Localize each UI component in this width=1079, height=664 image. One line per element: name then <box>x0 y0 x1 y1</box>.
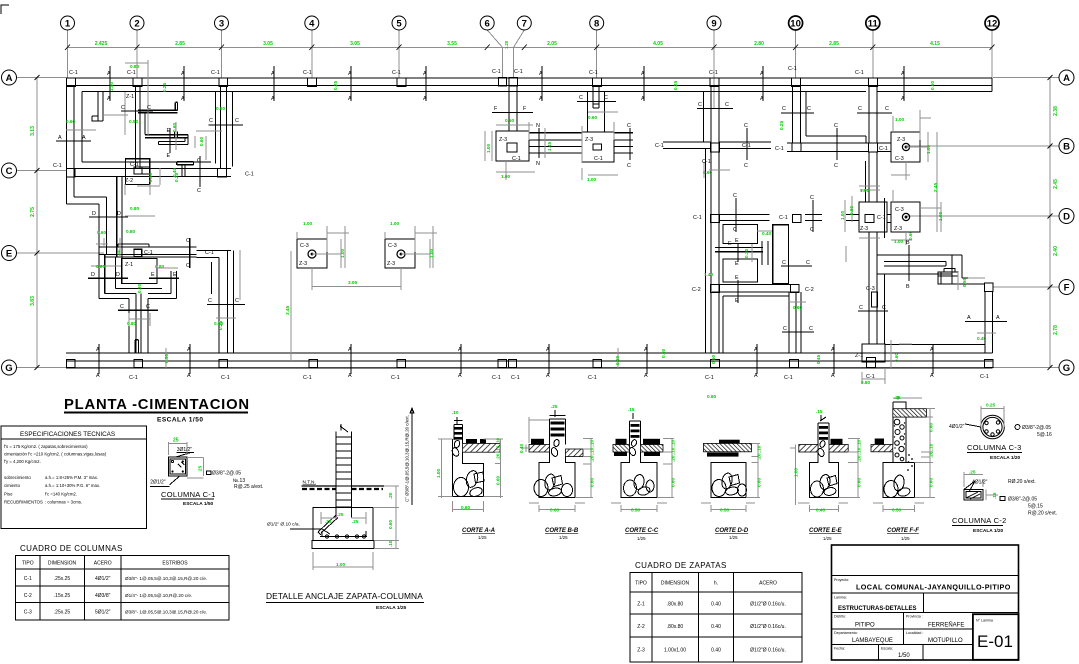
svg-text:3Ø1/2": 3Ø1/2" <box>177 447 193 453</box>
svg-text:C: C <box>147 105 151 111</box>
svg-text:0.40: 0.40 <box>977 336 987 341</box>
svg-text:.15: .15 <box>816 409 823 414</box>
svg-text:0.50: 0.50 <box>631 508 641 513</box>
svg-text:1.00: 1.00 <box>894 239 904 244</box>
C-C neck <box>118 309 158 311</box>
svg-text:Z-3: Z-3 <box>499 137 507 143</box>
grid11 wall below Z-3 <box>869 232 877 272</box>
svg-text:A: A <box>996 315 1000 321</box>
svg-text:A: A <box>187 347 191 353</box>
svg-text:.25x.25: .25x.25 <box>54 610 71 616</box>
svg-text:C-3: C-3 <box>866 286 875 292</box>
svg-text:ESTRUCTURAS-DETALLES: ESTRUCTURAS-DETALLES <box>838 606 917 612</box>
svg-text:R@.20 s/ext.: R@.20 s/ext. <box>1028 511 1057 517</box>
svg-text:TIPO: TIPO <box>635 581 647 587</box>
svg-text:C-1: C-1 <box>705 375 714 381</box>
svg-text:C-1: C-1 <box>742 143 751 149</box>
tick between footings <box>538 128 540 158</box>
svg-text:A: A <box>181 71 185 77</box>
svg-text:0.25: 0.25 <box>333 80 338 90</box>
svg-text:C-1: C-1 <box>303 375 312 381</box>
svg-text:2.425: 2.425 <box>95 41 108 47</box>
svg-text:C-1: C-1 <box>514 69 523 75</box>
svg-text:E: E <box>735 275 739 281</box>
CORTE F-F <box>871 395 935 541</box>
svg-text:RØ.20 s/ext.: RØ.20 s/ext. <box>1008 479 1036 485</box>
grid3 wall A-C <box>221 86 227 169</box>
Z-3/C-3 footing right upper <box>891 132 920 162</box>
svg-text:1/25: 1/25 <box>478 535 487 540</box>
svg-text:0.60: 0.60 <box>172 122 177 132</box>
svg-text:0.45: 0.45 <box>816 354 821 364</box>
corridor walls down to E room <box>99 177 122 259</box>
svg-text:A: A <box>187 373 191 379</box>
svg-text:A: A <box>539 71 543 77</box>
svg-text:A: A <box>644 373 648 379</box>
Z-2 footing <box>126 159 150 185</box>
svg-text:E: E <box>167 128 171 134</box>
E-room east wall <box>171 271 177 299</box>
E-room left: top band <box>99 244 197 257</box>
svg-text:5: 5 <box>396 19 402 30</box>
svg-text:A: A <box>831 373 835 379</box>
svg-text:A: A <box>348 96 352 102</box>
svg-text:3.05: 3.05 <box>348 280 358 285</box>
svg-text:LAMBAYEQUE: LAMBAYEQUE <box>852 638 893 644</box>
anchor bars <box>318 515 338 535</box>
svg-text:3.83: 3.83 <box>30 296 36 306</box>
svg-text:1.00: 1.00 <box>860 188 870 193</box>
svg-text:Ø1/2"Ø 0.16c/u.: Ø1/2"Ø 0.16c/u. <box>750 602 786 608</box>
svg-text:Z-1: Z-1 <box>125 262 133 268</box>
svg-text:B: B <box>1063 142 1070 153</box>
svg-text:2.85: 2.85 <box>175 41 185 47</box>
svg-text:A: A <box>644 347 648 353</box>
Z-3/C-3 footing right lower <box>891 202 920 232</box>
svg-text:Ø3/8"-2@.05: Ø3/8"-2@.05 <box>1008 497 1037 503</box>
svg-text:0.80: 0.80 <box>861 380 871 385</box>
svg-text:C-3: C-3 <box>300 243 309 249</box>
svg-text:C-1: C-1 <box>709 70 718 76</box>
svg-text:C-1: C-1 <box>492 375 501 381</box>
svg-text:Z-3: Z-3 <box>894 226 902 232</box>
svg-text:D: D <box>91 272 95 278</box>
svg-text:C: C <box>806 260 810 266</box>
svg-text:1/25: 1/25 <box>559 535 568 540</box>
svg-text:0.80: 0.80 <box>96 264 106 269</box>
svg-text:1.00: 1.00 <box>926 144 931 154</box>
column squares row G <box>67 360 994 368</box>
svg-text:5@.15: 5@.15 <box>1028 504 1043 510</box>
svg-text:0.60: 0.60 <box>461 505 471 510</box>
svg-text:0.60: 0.60 <box>590 477 595 487</box>
svg-text:COLUMNA C-2: COLUMNA C-2 <box>952 516 1007 525</box>
svg-text:ACERO: ACERO <box>94 561 112 567</box>
svg-text:A: A <box>423 71 427 77</box>
svg-text:0.50: 0.50 <box>148 172 153 182</box>
C-1 labels row G <box>129 374 989 381</box>
svg-text:C-1: C-1 <box>144 250 153 256</box>
C ticks mid band <box>630 128 837 160</box>
svg-text:2.80: 2.80 <box>754 41 764 47</box>
svg-text:A: A <box>901 71 905 77</box>
svg-text:DIMENSION: DIMENSION <box>661 581 690 587</box>
svg-text:.20,.10: .20,.10 <box>757 445 762 460</box>
svg-text:0.60: 0.60 <box>550 508 560 513</box>
grid2 interior wall (Z-1 wall) <box>135 86 140 169</box>
svg-text:Lamina:: Lamina: <box>834 596 847 600</box>
svg-text:C-1: C-1 <box>589 70 598 76</box>
svg-text:0.80: 0.80 <box>126 229 136 234</box>
svg-text:C: C <box>810 227 814 233</box>
svg-text:Z-3: Z-3 <box>637 648 645 654</box>
svg-text:A: A <box>760 96 764 102</box>
svg-text:C-1: C-1 <box>69 70 78 76</box>
svg-text:C: C <box>733 193 737 199</box>
C ticks lower band near grid10/11 <box>813 198 885 238</box>
svg-text:: columnas = 3cms.: : columnas = 3cms. <box>45 500 82 505</box>
svg-text:A: A <box>271 71 275 77</box>
C-C grid11 low <box>858 310 888 312</box>
grid8 wall down <box>588 86 605 132</box>
svg-text:4Ø1/2": 4Ø1/2" <box>949 424 965 430</box>
svg-text:C: C <box>807 106 811 112</box>
svg-text:0.60: 0.60 <box>857 477 862 487</box>
svg-text:DETALLE ANCLAJE ZAPATA-COLUMNA: DETALLE ANCLAJE ZAPATA-COLUMNA <box>266 591 423 601</box>
svg-text:D: D <box>92 211 96 217</box>
svg-text:7: 7 <box>522 19 527 30</box>
svg-text:C: C <box>186 263 190 269</box>
svg-text:cimentación f'c =210 Kg/cm2.: cimentación f'c =210 Kg/cm2. ( columnas,… <box>4 452 107 457</box>
CORTE C-C <box>611 407 676 541</box>
grid10 wall lower <box>789 292 801 353</box>
CORTE A-A <box>436 410 503 540</box>
svg-text:C-3: C-3 <box>895 156 904 162</box>
svg-text:C: C <box>120 304 124 310</box>
svg-text:12: 12 <box>987 19 998 30</box>
svg-text:CORTE C-C: CORTE C-C <box>625 528 659 534</box>
svg-text:25: 25 <box>173 438 179 444</box>
grid 6/7 wall down to Z-3 <box>509 86 517 131</box>
row bubbles left A C E G <box>2 70 17 375</box>
svg-text:C: C <box>783 326 787 332</box>
svg-text:Z-1: Z-1 <box>855 353 863 359</box>
svg-text:.15: .15 <box>628 407 635 412</box>
svg-text:2.40: 2.40 <box>1053 246 1059 256</box>
svg-text:C-1: C-1 <box>511 375 520 381</box>
svg-text:0.60: 0.60 <box>908 230 913 240</box>
inner face verticals mid rooms <box>703 92 705 143</box>
svg-text:C-1: C-1 <box>24 576 32 582</box>
svg-text:C-1: C-1 <box>655 143 664 149</box>
fogon detail rect <box>938 269 958 285</box>
svg-text:E: E <box>167 153 171 159</box>
svg-text:1/25: 1/25 <box>637 536 646 541</box>
svg-text:0.80: 0.80 <box>130 206 140 211</box>
svg-text:1.00: 1.00 <box>340 248 345 258</box>
svg-text:RECUBRIMIENTOS: RECUBRIMIENTOS <box>4 500 43 505</box>
svg-text:2.78: 2.78 <box>1053 325 1059 335</box>
svg-text:10: 10 <box>790 19 801 30</box>
svg-text:C: C <box>859 305 863 311</box>
svg-text:0.25: 0.25 <box>174 172 179 182</box>
svg-text:A: A <box>760 71 764 77</box>
svg-text:C: C <box>810 195 814 201</box>
svg-text:E: E <box>735 261 739 267</box>
svg-text:0.60: 0.60 <box>929 422 934 432</box>
svg-text:F: F <box>1064 283 1070 294</box>
Z-3 footing grid8 <box>582 132 614 162</box>
svg-text:0.50: 0.50 <box>164 353 169 363</box>
svg-text:0.60: 0.60 <box>588 115 598 120</box>
svg-text:Provincia :: Provincia : <box>906 615 923 619</box>
room inner faces grid10-11 <box>806 92 866 144</box>
svg-text:4Ø1/2": 4Ø1/2" <box>972 480 988 486</box>
svg-text:0.55: 0.55 <box>962 277 967 287</box>
svg-text:C-1: C-1 <box>779 215 788 221</box>
svg-text:C: C <box>121 105 125 111</box>
svg-text:C-1: C-1 <box>53 163 62 169</box>
svg-text:C-1: C-1 <box>245 172 254 178</box>
svg-text:A: A <box>58 135 62 141</box>
svg-text:E: E <box>173 272 177 278</box>
svg-text:Z-2: Z-2 <box>637 624 645 630</box>
wall below band at grid10 area <box>773 225 789 284</box>
svg-text:0.80: 0.80 <box>127 321 137 326</box>
svg-text:ESCALA 1/20: ESCALA 1/20 <box>990 455 1021 461</box>
svg-text:1.00: 1.00 <box>390 221 400 226</box>
svg-text:D: D <box>1063 212 1070 223</box>
svg-text:.10: .10 <box>452 410 459 415</box>
misc black labels in plan <box>53 94 905 359</box>
svg-text:0.60: 0.60 <box>199 136 204 146</box>
svg-text:C: C <box>882 305 886 311</box>
svg-text:.20,.10,.10: .20,.10,.10 <box>671 439 676 462</box>
left margin dims <box>30 126 36 306</box>
svg-text:.20,.10,.10: .20,.10,.10 <box>857 439 862 462</box>
svg-text:0.40: 0.40 <box>762 231 772 236</box>
column squares row C left <box>67 169 227 178</box>
svg-text:A: A <box>754 347 758 353</box>
C-C grid9 upper <box>697 108 733 110</box>
grid10 wall upper <box>793 86 801 143</box>
svg-text:C: C <box>235 118 239 124</box>
svg-text:Ø1/4"- 1@.05,5@.10,R@.20 c/e.: Ø1/4"- 1@.05,5@.10,R@.20 c/e. <box>125 593 192 598</box>
row C band <box>67 169 232 177</box>
svg-text:MOTUPILLO: MOTUPILLO <box>928 638 963 644</box>
rooms right of grid9 <box>723 225 758 244</box>
svg-text:0.40: 0.40 <box>711 602 721 608</box>
ties to right footings <box>877 143 891 223</box>
svg-text:1/25: 1/25 <box>823 536 832 541</box>
svg-text:C-1: C-1 <box>512 156 521 162</box>
A ticks row G <box>99 344 933 374</box>
dim line slash ticks <box>35 45 1053 371</box>
svg-text:C: C <box>197 188 201 194</box>
svg-text:Distrito:: Distrito: <box>834 615 846 619</box>
svg-text:3: 3 <box>219 19 224 30</box>
green dimension labels in plan <box>66 64 987 399</box>
svg-text:C: C <box>208 298 212 304</box>
svg-text:8: 8 <box>594 19 599 30</box>
svg-text:A: A <box>930 347 934 353</box>
svg-text:0.60: 0.60 <box>388 519 393 529</box>
svg-text:0.80: 0.80 <box>155 264 165 269</box>
svg-text:1.00: 1.00 <box>303 221 313 226</box>
svg-text:1.00: 1.00 <box>336 562 346 567</box>
svg-text:A: A <box>539 96 543 102</box>
svg-text:0.50: 0.50 <box>661 348 666 358</box>
columna C-1 detail <box>150 453 194 487</box>
mid horizontal wall band row ~D <box>614 133 712 153</box>
row G band <box>66 353 993 368</box>
svg-text:0.25: 0.25 <box>162 82 167 92</box>
svg-text:C: C <box>6 166 13 177</box>
svg-text:A: A <box>1063 73 1070 84</box>
svg-text:A: A <box>107 96 111 102</box>
detalle anclaje zapata-columna <box>312 424 374 549</box>
neck down to G <box>129 294 148 354</box>
svg-text:.20,.10,.10: .20,.10,.10 <box>590 439 595 462</box>
svg-text:C-1: C-1 <box>205 250 214 256</box>
svg-text:A: A <box>901 96 905 102</box>
svg-text:h.: h. <box>714 581 718 587</box>
svg-text:Proyecto:: Proyecto: <box>834 578 849 582</box>
svg-text:ACERO: ACERO <box>759 581 777 587</box>
bathroom hook wall <box>138 102 178 113</box>
svg-text:1.00: 1.00 <box>587 177 597 182</box>
Z-3 footing grid11 lower <box>859 202 887 232</box>
svg-text:E: E <box>6 249 12 260</box>
svg-text:E: E <box>728 241 732 247</box>
svg-text:E: E <box>735 298 739 304</box>
top dimension labels <box>95 40 940 49</box>
svg-text:a.h.= 1:8+25% P.M. 3" max.: a.h.= 1:8+25% P.M. 3" max. <box>45 475 98 480</box>
svg-text:.15x.25: .15x.25 <box>54 593 71 599</box>
svg-text:CUADRO DE ZAPATAS: CUADRO DE ZAPATAS <box>635 561 727 570</box>
row bubbles right A B D F G <box>1059 70 1074 375</box>
band right of grid9 at y215 <box>719 215 770 221</box>
C-1 labels along row A <box>69 66 864 76</box>
svg-text:A: A <box>641 96 645 102</box>
svg-text:C-1: C-1 <box>130 162 139 168</box>
C-C sections upper-left rooms <box>121 111 243 125</box>
svg-text:.80x.80: .80x.80 <box>667 602 684 608</box>
svg-text:Ø1/2" Ø.10 c/a.: Ø1/2" Ø.10 c/a. <box>267 522 300 528</box>
svg-text:B: B <box>906 284 910 290</box>
svg-text:.25: .25 <box>325 519 332 524</box>
svg-text:0.60: 0.60 <box>929 477 934 487</box>
svg-text:2.38: 2.38 <box>1053 106 1059 116</box>
svg-text:0.25: 0.25 <box>218 320 223 330</box>
svg-text:A: A <box>96 347 100 353</box>
svg-text:C: C <box>733 227 737 233</box>
svg-text:.60: .60 <box>116 249 121 256</box>
svg-text:C: C <box>858 106 862 112</box>
svg-text:1.00: 1.00 <box>486 143 491 153</box>
svg-text:A: A <box>458 373 462 379</box>
svg-text:C-1: C-1 <box>879 146 888 152</box>
row A top wall <box>66 78 992 92</box>
svg-text:A: A <box>6 73 13 84</box>
C-C E-room top <box>189 238 191 268</box>
svg-text:C-1: C-1 <box>594 156 603 162</box>
C-C E-room right wall <box>207 303 245 305</box>
C-C grid8 <box>577 101 616 103</box>
svg-text:C-1: C-1 <box>391 375 400 381</box>
svg-text:ESCALA 1/50: ESCALA 1/50 <box>157 417 203 424</box>
row A inner face <box>82 91 992 93</box>
svg-text:0.60: 0.60 <box>930 80 935 90</box>
wall stub below top wall near grid1 <box>92 92 103 122</box>
svg-text:3.45: 3.45 <box>285 305 290 315</box>
svg-text:C: C <box>834 163 838 169</box>
svg-text:9: 9 <box>711 19 716 30</box>
svg-text:G: G <box>5 363 12 374</box>
svg-text:A: A <box>831 347 835 353</box>
svg-text:0.50: 0.50 <box>505 118 515 123</box>
svg-text:G: G <box>1063 363 1070 374</box>
svg-text:LOCAL COMUNAL-JAYANQUILLO-PITI: LOCAL COMUNAL-JAYANQUILLO-PITIPO <box>856 583 1011 592</box>
svg-text:N: N <box>536 161 540 167</box>
svg-text:Ø1/2"Ø 0.16c/u.: Ø1/2"Ø 0.16c/u. <box>750 624 786 630</box>
Z-1 footing rect <box>122 259 157 284</box>
svg-text:Ø3/8"-2@.05: Ø3/8"-2@.05 <box>1022 425 1051 431</box>
svg-text:.10: .10 <box>388 540 393 547</box>
svg-text:2: 2 <box>134 19 139 30</box>
lower band grid10-11 <box>805 215 859 221</box>
svg-text:C-1: C-1 <box>492 69 501 75</box>
svg-text:C-1: C-1 <box>980 374 989 380</box>
dims <box>313 486 399 570</box>
svg-text:.20: .20 <box>388 492 393 499</box>
svg-text:f'c =140 Kg/cm2.: f'c =140 Kg/cm2. <box>45 492 77 497</box>
Z-1 footing at grid11/G <box>862 344 885 362</box>
especificaciones tecnicas box <box>1 426 147 529</box>
svg-text:C: C <box>627 123 631 129</box>
svg-text:0.60: 0.60 <box>671 477 676 487</box>
svg-text:1/50: 1/50 <box>898 653 910 659</box>
svg-text:25: 25 <box>198 465 203 471</box>
svg-text:0.80: 0.80 <box>216 106 226 111</box>
svg-text:PLANTA -CIMENTACION: PLANTA -CIMENTACION <box>64 397 250 413</box>
svg-text:0.50: 0.50 <box>892 508 902 513</box>
svg-text:C: C <box>235 298 239 304</box>
svg-text:C-1: C-1 <box>129 375 138 381</box>
svg-text:1.40: 1.40 <box>704 272 714 277</box>
svg-text:PITIPO: PITIPO <box>855 623 875 629</box>
svg-text:Fecha:: Fecha: <box>834 647 845 651</box>
svg-text:CORTE D-D: CORTE D-D <box>715 528 749 534</box>
svg-text:CUADRO DE COLUMNAS: CUADRO DE COLUMNAS <box>20 544 123 553</box>
footing <box>313 508 373 541</box>
svg-text:C: C <box>782 106 786 112</box>
svg-text:2Ø1/2": 2Ø1/2" <box>150 480 166 486</box>
svg-text:C: C <box>146 304 150 310</box>
svg-text:C-2: C-2 <box>805 287 814 293</box>
C tick near Z-2 <box>199 156 201 187</box>
svg-text:.20,.10: .20,.10 <box>929 443 934 458</box>
svg-text:N° Lamina: N° Lamina <box>976 619 993 623</box>
svg-text:A: A <box>930 373 934 379</box>
CORTE E-E <box>790 409 862 541</box>
big room below <box>723 296 789 353</box>
B-B stepped wall <box>908 245 910 281</box>
svg-text:A: A <box>546 347 550 353</box>
svg-text:A: A <box>458 347 462 353</box>
svg-text:1.00: 1.00 <box>501 174 511 179</box>
svg-text:0.50: 0.50 <box>711 354 716 364</box>
